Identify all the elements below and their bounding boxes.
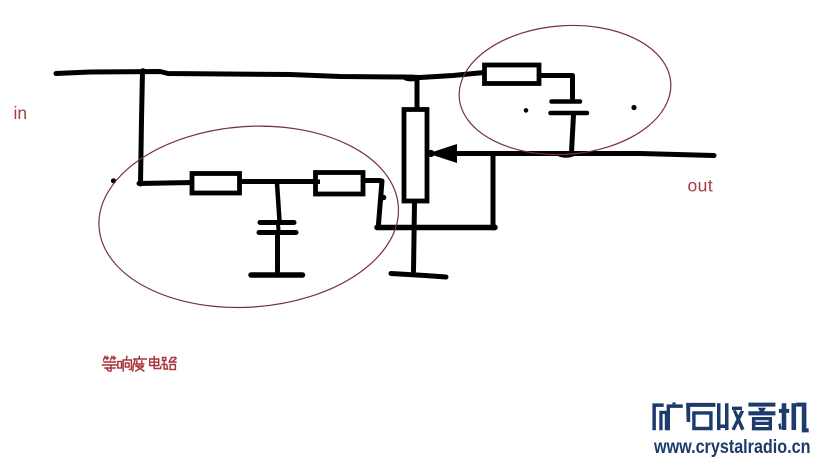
resistor R3: [485, 65, 540, 84]
logo glyph 收: [717, 403, 745, 430]
wire: vertical drop right of R2: [379, 181, 383, 224]
wire: wiper shaft and out line: [455, 154, 714, 156]
wire: pot bottom lead: [414, 203, 415, 271]
resistor R2: [316, 173, 364, 195]
ground bar (potentiometer): [391, 274, 446, 278]
label: 等响度电路 (red caption, drawn as paths): [103, 357, 177, 372]
logo glyph 石: [686, 403, 715, 430]
wire: horizontal into R1: [139, 183, 192, 184]
junction blob bottom wire left end: [375, 223, 381, 229]
capacitor C2 bottom plate: [551, 111, 588, 116]
junction dot right of R2: [381, 195, 387, 201]
capacitor C1 nub: [276, 224, 281, 230]
wire: C2 lower lead to out line: [572, 115, 574, 152]
wire: C1 lower lead: [275, 234, 280, 271]
capacitor C1 top plate: [260, 220, 294, 225]
junction blob C2 lead on out line: [557, 151, 575, 157]
svg-text:in: in: [14, 103, 28, 123]
ground bar (left network): [251, 272, 303, 278]
junction blob riser/out: [490, 151, 496, 157]
resistor R1: [192, 174, 240, 194]
capacitor C2 top plate: [552, 99, 581, 104]
logo glyph 矿: [652, 402, 682, 430]
glyph 度: [133, 357, 147, 372]
node dot on left ellipse: [111, 178, 116, 183]
wire: R3 to C2 corner: [540, 76, 573, 99]
potentiometer wiper arrowhead: [428, 144, 457, 163]
wire: pot top lead: [415, 79, 420, 108]
glyph 等: [103, 357, 118, 372]
node dot inside right ellipse (right): [631, 105, 636, 110]
wire: R1 to R2: [241, 179, 314, 184]
watermark logotype 矿石收音机 (drawn as paths): [652, 402, 808, 432]
junction blob riser/bottom wire: [490, 224, 497, 231]
wire: top rail from input: [56, 72, 484, 78]
logo glyph 音: [748, 403, 775, 431]
junction blob on top rail (pot branch): [403, 75, 420, 82]
node dot inside right ellipse (left): [524, 108, 529, 113]
potentiometer VR1 body: [404, 110, 427, 202]
glyph 响: [118, 357, 131, 372]
glyph 电: [150, 357, 161, 369]
resistor R2 inner nub: [316, 180, 320, 185]
capacitor C1 bottom plate: [259, 230, 296, 235]
wire: left branch vertical from top rail: [141, 71, 143, 184]
wire: R2 right stub: [364, 178, 380, 183]
wire: bottom return wire: [377, 225, 495, 231]
glyph 路: [162, 358, 176, 370]
svg-text:out: out: [688, 176, 714, 196]
wire: capacitor C1 feed (slanted): [277, 183, 280, 221]
svg-text:www.crystalradio.cn: www.crystalradio.cn: [653, 437, 810, 458]
wire: riser to wiper line: [491, 155, 496, 226]
junction blob on top rail (left branch): [140, 68, 146, 74]
annotation ellipse (right, around R3/C2): [455, 18, 675, 161]
logo glyph 机: [778, 403, 808, 433]
annotation ellipse (left, around loudness RC network): [93, 116, 405, 317]
